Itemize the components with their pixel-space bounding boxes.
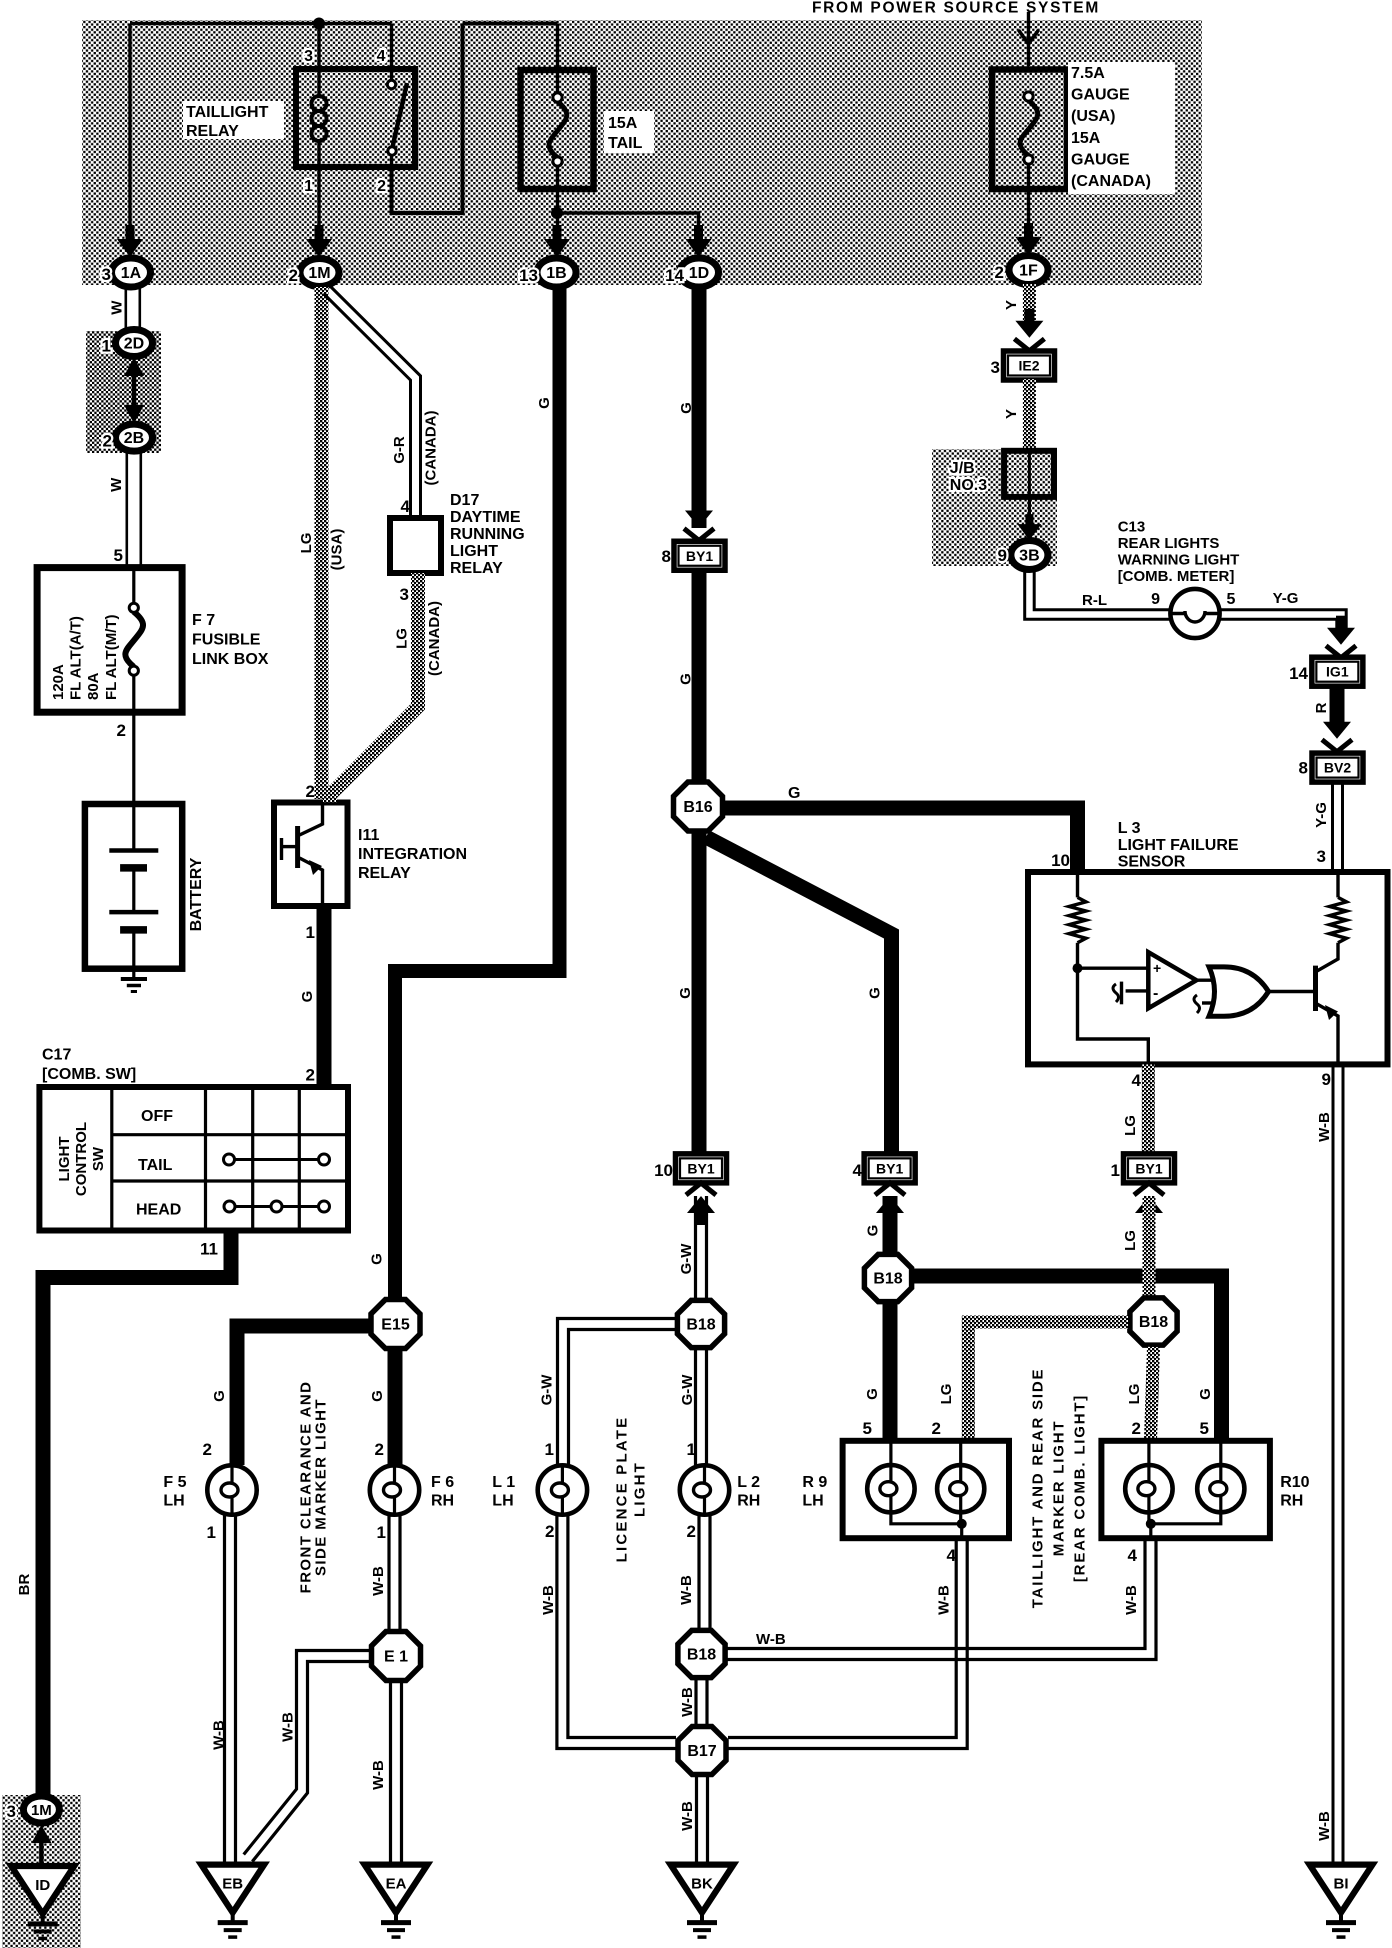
- svg-text:TAIL: TAIL: [608, 135, 643, 152]
- svg-text:1B: 1B: [546, 265, 566, 282]
- svg-text:2: 2: [375, 1440, 384, 1459]
- svg-text:RUNNING: RUNNING: [450, 526, 525, 543]
- svg-text:G-W: G-W: [539, 1374, 556, 1406]
- svg-text:FL ALT(A/T): FL ALT(A/T): [68, 616, 85, 700]
- svg-text:F 5: F 5: [163, 1474, 186, 1491]
- svg-text:5: 5: [863, 1419, 872, 1438]
- svg-text:LIGHT: LIGHT: [450, 543, 498, 560]
- svg-text:B18: B18: [687, 1647, 716, 1664]
- svg-text:2: 2: [289, 266, 298, 285]
- svg-text:4: 4: [947, 1546, 957, 1565]
- svg-text:[COMB. SW]: [COMB. SW]: [42, 1066, 136, 1083]
- svg-text:3: 3: [304, 48, 313, 65]
- svg-text:RELAY: RELAY: [358, 865, 411, 882]
- svg-text:E 1: E 1: [384, 1649, 408, 1666]
- svg-text:G: G: [369, 1253, 386, 1265]
- svg-text:W-B: W-B: [1316, 1811, 1333, 1841]
- svg-text:1: 1: [687, 1440, 696, 1459]
- svg-text:1M: 1M: [308, 265, 330, 282]
- svg-text:LINK BOX: LINK BOX: [192, 651, 269, 668]
- svg-text:SW: SW: [90, 1146, 107, 1171]
- svg-text:WARNING LIGHT: WARNING LIGHT: [1118, 552, 1240, 569]
- svg-text:2: 2: [103, 432, 112, 451]
- svg-text:MARKER LIGHT: MARKER LIGHT: [1051, 1420, 1068, 1557]
- svg-text:TAILLIGHT: TAILLIGHT: [186, 104, 269, 121]
- svg-text:RH: RH: [737, 1493, 760, 1510]
- svg-text:5: 5: [1227, 591, 1236, 608]
- svg-text:F 7: F 7: [192, 612, 215, 629]
- svg-text:L 2: L 2: [737, 1474, 760, 1491]
- svg-text:2: 2: [687, 1522, 696, 1541]
- svg-text:SENSOR: SENSOR: [1118, 854, 1186, 871]
- svg-text:W: W: [109, 300, 126, 315]
- svg-text:REAR LIGHTS: REAR LIGHTS: [1118, 535, 1220, 552]
- svg-text:INTEGRATION: INTEGRATION: [358, 846, 467, 863]
- svg-text:3: 3: [102, 265, 111, 284]
- svg-text:(USA): (USA): [329, 529, 346, 571]
- svg-text:G: G: [678, 402, 695, 414]
- svg-text:1: 1: [207, 1523, 216, 1542]
- svg-text:10: 10: [1051, 851, 1070, 870]
- svg-text:G: G: [865, 1225, 882, 1237]
- svg-text:14: 14: [665, 266, 684, 285]
- svg-text:C13: C13: [1118, 519, 1146, 536]
- svg-text:TAILLIGHT AND REAR SIDE: TAILLIGHT AND REAR SIDE: [1030, 1368, 1047, 1609]
- svg-text:8: 8: [662, 547, 671, 566]
- svg-text:CONTROL: CONTROL: [73, 1122, 90, 1196]
- svg-text:G: G: [677, 987, 694, 999]
- svg-text:LG: LG: [298, 533, 315, 554]
- svg-text:5: 5: [1200, 1419, 1209, 1438]
- svg-text:NO.3: NO.3: [950, 477, 987, 494]
- svg-text:13: 13: [519, 266, 538, 285]
- svg-text:BY1: BY1: [687, 1160, 714, 1176]
- svg-text:[REAR COMB. LIGHT]: [REAR COMB. LIGHT]: [1072, 1394, 1089, 1582]
- svg-text:G: G: [299, 991, 316, 1003]
- svg-text:Y: Y: [1003, 409, 1020, 419]
- svg-text:3: 3: [400, 585, 409, 604]
- svg-text:1: 1: [545, 1440, 554, 1459]
- svg-text:10: 10: [654, 1161, 673, 1180]
- svg-text:FL ALT(M/T): FL ALT(M/T): [103, 614, 120, 700]
- svg-text:G: G: [536, 397, 553, 409]
- svg-text:4: 4: [401, 497, 411, 516]
- svg-text:L 3: L 3: [1118, 820, 1141, 837]
- svg-text:4: 4: [853, 1161, 863, 1180]
- svg-text:IG1: IG1: [1326, 664, 1349, 680]
- svg-text:1: 1: [102, 337, 111, 356]
- svg-text:Y-G: Y-G: [1273, 590, 1299, 607]
- svg-text:GAUGE: GAUGE: [1071, 151, 1130, 168]
- svg-text:B18: B18: [1139, 1314, 1168, 1331]
- svg-text:W-B: W-B: [756, 1631, 786, 1648]
- svg-text:B16: B16: [683, 799, 712, 816]
- svg-text:D17: D17: [450, 492, 479, 509]
- svg-text:GAUGE: GAUGE: [1071, 87, 1130, 104]
- svg-text:B18: B18: [686, 1317, 715, 1334]
- svg-text:4: 4: [1128, 1546, 1138, 1565]
- svg-text:LH: LH: [492, 1493, 513, 1510]
- svg-text:Y: Y: [1003, 300, 1020, 310]
- svg-text:HEAD: HEAD: [136, 1202, 181, 1219]
- svg-text:(CANADA): (CANADA): [423, 411, 440, 486]
- svg-text:LG: LG: [394, 628, 411, 649]
- svg-text:2D: 2D: [124, 336, 144, 353]
- svg-text:RELAY: RELAY: [186, 123, 239, 140]
- svg-text:FROM POWER SOURCE SYSTEM: FROM POWER SOURCE SYSTEM: [812, 0, 1100, 17]
- svg-text:1: 1: [304, 178, 313, 195]
- svg-text:15A: 15A: [608, 115, 638, 132]
- svg-text:G: G: [369, 1390, 386, 1402]
- svg-text:W-B: W-B: [211, 1720, 228, 1750]
- svg-text:Y-G: Y-G: [1313, 802, 1330, 828]
- svg-text:LG: LG: [1126, 1384, 1143, 1405]
- svg-text:120A: 120A: [50, 664, 67, 700]
- svg-text:W-B: W-B: [679, 1801, 696, 1831]
- svg-text:2: 2: [995, 263, 1004, 282]
- svg-text:B17: B17: [687, 1743, 716, 1760]
- svg-text:1D: 1D: [689, 265, 709, 282]
- svg-text:FUSIBLE: FUSIBLE: [192, 632, 261, 649]
- svg-text:14: 14: [1289, 664, 1308, 683]
- svg-text:2: 2: [306, 1066, 315, 1085]
- svg-text:LH: LH: [163, 1493, 184, 1510]
- svg-text:[COMB. METER]: [COMB. METER]: [1118, 568, 1235, 585]
- svg-text:W-B: W-B: [679, 1687, 696, 1717]
- svg-text:IE2: IE2: [1018, 358, 1039, 374]
- svg-text:R 9: R 9: [802, 1474, 827, 1491]
- svg-text:BATTERY: BATTERY: [188, 857, 205, 931]
- svg-text:2: 2: [545, 1522, 554, 1541]
- svg-text:DAYTIME: DAYTIME: [450, 509, 521, 526]
- svg-text:BY1: BY1: [686, 548, 713, 564]
- svg-text:R10: R10: [1280, 1474, 1309, 1491]
- svg-text:W-B: W-B: [540, 1585, 557, 1615]
- svg-text:R: R: [1313, 702, 1330, 713]
- svg-text:W: W: [108, 477, 125, 492]
- svg-text:2: 2: [932, 1419, 941, 1438]
- svg-text:I11: I11: [358, 827, 379, 844]
- svg-text:LIGHT: LIGHT: [56, 1137, 73, 1182]
- svg-text:LIGHT FAILURE: LIGHT FAILURE: [1118, 837, 1239, 854]
- svg-text:BV2: BV2: [1324, 760, 1351, 776]
- svg-text:G: G: [678, 673, 695, 685]
- svg-text:W-B: W-B: [280, 1712, 297, 1742]
- svg-text:80A: 80A: [85, 672, 102, 700]
- svg-text:C17: C17: [42, 1047, 71, 1064]
- svg-text:+: +: [1153, 960, 1161, 976]
- svg-text:1: 1: [1111, 1161, 1120, 1180]
- svg-text:1M: 1M: [31, 1802, 52, 1819]
- svg-text:1F: 1F: [1019, 263, 1038, 280]
- svg-text:EA: EA: [386, 1876, 407, 1893]
- svg-text:BI: BI: [1334, 1876, 1349, 1893]
- svg-text:2: 2: [117, 721, 126, 740]
- svg-text:E15: E15: [381, 1317, 410, 1334]
- svg-text:11: 11: [200, 1240, 218, 1259]
- svg-text:2: 2: [377, 178, 386, 195]
- svg-text:LIGHT: LIGHT: [632, 1461, 649, 1517]
- svg-text:G: G: [211, 1390, 228, 1402]
- svg-text:4: 4: [377, 48, 386, 65]
- svg-text:G-R: G-R: [391, 436, 408, 464]
- svg-text:TAIL: TAIL: [138, 1157, 173, 1174]
- svg-text:W-B: W-B: [936, 1585, 953, 1615]
- svg-text:9: 9: [998, 546, 1007, 565]
- svg-text:1: 1: [377, 1523, 386, 1542]
- svg-text:G-W: G-W: [679, 1374, 696, 1406]
- svg-text:5: 5: [114, 546, 123, 565]
- svg-text:(CANADA): (CANADA): [1071, 173, 1151, 190]
- svg-text:R-L: R-L: [1082, 592, 1107, 609]
- svg-text:L 1: L 1: [492, 1474, 515, 1491]
- svg-text:RH: RH: [431, 1493, 454, 1510]
- svg-text:G: G: [788, 785, 800, 802]
- svg-text:RELAY: RELAY: [450, 560, 503, 577]
- svg-text:1: 1: [306, 923, 315, 942]
- svg-text:W-B: W-B: [1316, 1112, 1333, 1142]
- svg-text:W-B: W-B: [678, 1575, 695, 1605]
- svg-text:3: 3: [1317, 847, 1326, 866]
- svg-text:W-B: W-B: [370, 1760, 387, 1790]
- svg-text:LG: LG: [938, 1384, 955, 1405]
- svg-text:ID: ID: [35, 1877, 50, 1894]
- svg-text:2: 2: [1132, 1419, 1141, 1438]
- svg-text:9: 9: [1151, 591, 1160, 608]
- svg-text:(USA): (USA): [1071, 108, 1115, 125]
- svg-text:7.5A: 7.5A: [1071, 65, 1105, 82]
- svg-text:3B: 3B: [1019, 548, 1039, 565]
- svg-text:G: G: [864, 1388, 881, 1400]
- svg-text:J/B: J/B: [950, 460, 975, 477]
- svg-text:BK: BK: [691, 1876, 713, 1893]
- svg-text:BR: BR: [16, 1574, 33, 1596]
- svg-text:LH: LH: [802, 1493, 823, 1510]
- svg-text:8: 8: [1299, 759, 1308, 778]
- svg-text:LG: LG: [1122, 1115, 1139, 1136]
- svg-text:15A: 15A: [1071, 130, 1101, 147]
- svg-text:G-W: G-W: [678, 1243, 695, 1275]
- svg-text:2: 2: [203, 1440, 212, 1459]
- svg-text:-: -: [1153, 985, 1158, 1002]
- svg-text:SIDE MARKER LIGHT: SIDE MARKER LIGHT: [312, 1398, 329, 1576]
- svg-text:G: G: [1197, 1388, 1214, 1400]
- svg-text:LG: LG: [1122, 1230, 1139, 1251]
- svg-text:2: 2: [306, 782, 315, 801]
- svg-text:1A: 1A: [121, 265, 142, 282]
- svg-text:EB: EB: [222, 1876, 243, 1893]
- svg-text:9: 9: [1322, 1070, 1331, 1089]
- svg-text:BY1: BY1: [1135, 1160, 1162, 1176]
- svg-text:LICENCE PLATE: LICENCE PLATE: [614, 1416, 631, 1563]
- svg-text:W-B: W-B: [370, 1566, 387, 1596]
- svg-text:4: 4: [1132, 1071, 1142, 1090]
- svg-text:G: G: [866, 987, 883, 999]
- svg-text:B18: B18: [873, 1271, 902, 1288]
- svg-text:RH: RH: [1280, 1493, 1303, 1510]
- svg-text:OFF: OFF: [141, 1108, 173, 1125]
- svg-text:3: 3: [991, 358, 1000, 377]
- svg-text:(CANADA): (CANADA): [426, 601, 443, 676]
- svg-text:3: 3: [7, 1802, 16, 1821]
- svg-text:F 6: F 6: [431, 1474, 454, 1491]
- svg-text:W-B: W-B: [1123, 1585, 1140, 1615]
- svg-text:2B: 2B: [124, 430, 144, 447]
- svg-text:BY1: BY1: [876, 1160, 903, 1176]
